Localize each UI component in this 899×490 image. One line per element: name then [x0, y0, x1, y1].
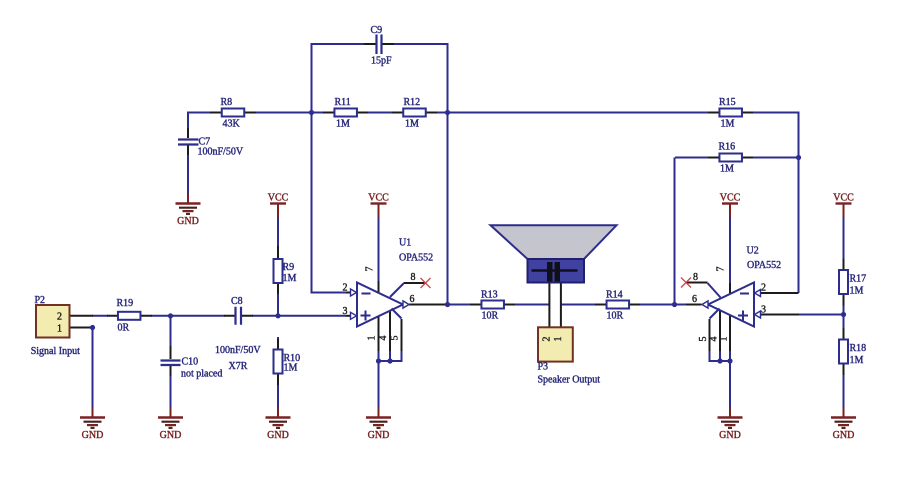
svg-text:2: 2 — [761, 283, 766, 294]
svg-text:R9: R9 — [283, 262, 295, 273]
svg-text:R15: R15 — [719, 97, 736, 108]
svg-text:1M: 1M — [336, 119, 350, 130]
svg-text:P2: P2 — [35, 295, 46, 306]
svg-text:OPA552: OPA552 — [399, 253, 433, 264]
svg-text:6: 6 — [410, 294, 415, 305]
svg-text:10R: 10R — [607, 311, 624, 322]
svg-text:X7R: X7R — [229, 361, 248, 372]
svg-text:100nF/50V: 100nF/50V — [198, 147, 244, 158]
svg-text:0R: 0R — [118, 323, 130, 334]
svg-text:100nF/50V: 100nF/50V — [215, 345, 261, 356]
svg-text:1M: 1M — [283, 273, 297, 284]
svg-text:4: 4 — [378, 336, 389, 341]
svg-text:2: 2 — [343, 283, 348, 294]
svg-text:8: 8 — [693, 272, 698, 283]
svg-text:R18: R18 — [850, 343, 867, 354]
svg-text:5: 5 — [390, 336, 401, 341]
svg-text:15pF: 15pF — [371, 56, 392, 67]
svg-text:OPA552: OPA552 — [747, 260, 781, 271]
svg-text:P3: P3 — [538, 362, 549, 373]
svg-text:C8: C8 — [231, 296, 243, 307]
svg-text:4: 4 — [709, 337, 720, 342]
svg-text:R16: R16 — [719, 142, 736, 153]
svg-text:10R: 10R — [482, 311, 499, 322]
svg-text:1M: 1M — [850, 286, 864, 297]
svg-text:1: 1 — [553, 337, 564, 342]
svg-text:not placed: not placed — [181, 369, 222, 380]
svg-text:1: 1 — [719, 337, 730, 342]
svg-text:1M: 1M — [405, 119, 419, 130]
svg-text:43K: 43K — [223, 119, 241, 130]
svg-text:R12: R12 — [404, 97, 421, 108]
svg-text:1: 1 — [367, 336, 378, 341]
svg-text:5: 5 — [698, 337, 709, 342]
svg-text:Signal Input: Signal Input — [31, 346, 80, 357]
svg-text:R19: R19 — [117, 298, 134, 309]
svg-text:U1: U1 — [399, 238, 411, 249]
svg-text:8: 8 — [411, 272, 416, 283]
svg-text:1M: 1M — [850, 355, 864, 366]
svg-text:1M: 1M — [284, 363, 298, 374]
svg-text:1M: 1M — [721, 119, 735, 130]
svg-text:2: 2 — [57, 312, 62, 323]
svg-text:Speaker Output: Speaker Output — [538, 375, 601, 386]
svg-text:3: 3 — [343, 306, 348, 317]
svg-text:C10: C10 — [182, 357, 199, 368]
svg-text:C9: C9 — [371, 25, 383, 36]
svg-text:R8: R8 — [221, 97, 233, 108]
svg-text:R17: R17 — [850, 274, 867, 285]
svg-text:1: 1 — [57, 323, 62, 334]
svg-text:7: 7 — [365, 267, 376, 272]
svg-text:R11: R11 — [335, 97, 351, 108]
svg-text:7: 7 — [716, 267, 727, 272]
svg-text:6: 6 — [692, 294, 697, 305]
svg-text:R14: R14 — [606, 290, 623, 301]
svg-text:3: 3 — [761, 305, 766, 316]
svg-text:R13: R13 — [481, 290, 498, 301]
svg-text:U2: U2 — [747, 246, 759, 257]
svg-text:1M: 1M — [720, 164, 734, 175]
svg-text:2: 2 — [541, 337, 552, 342]
